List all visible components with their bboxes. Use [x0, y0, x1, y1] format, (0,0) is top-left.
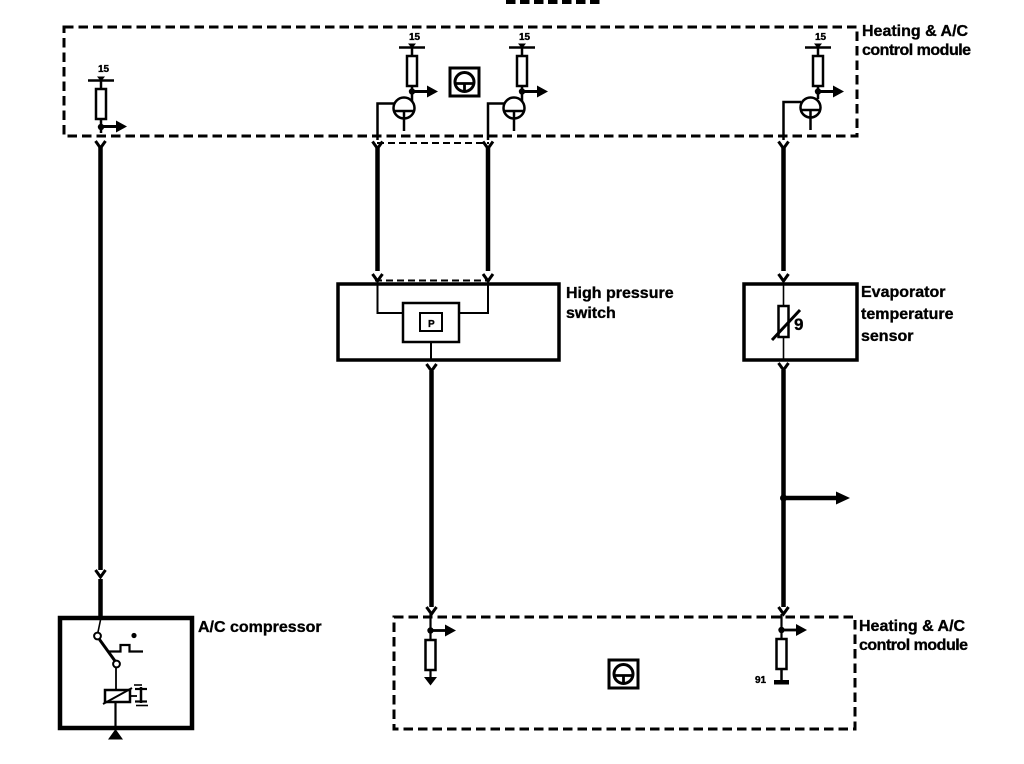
fuse F2 (terminal 15, mid-left): [399, 32, 425, 101]
connector V at bottom of wire C: [483, 274, 493, 281]
svg-text:Heating & A/C: Heating & A/C: [862, 23, 969, 40]
connector V below sensor box: [779, 363, 789, 370]
svg-text:15: 15: [98, 64, 110, 75]
label: A/C compressor: [198, 619, 322, 636]
svg-text:15: 15: [409, 32, 421, 43]
connector V at bottom of wire B: [373, 274, 383, 281]
junction node + arrow at F2 output: [409, 86, 438, 98]
fan icon (blower) in top module: [450, 68, 479, 96]
fuse F3 (terminal 15, mid-right): [509, 32, 535, 101]
input fuse/resistor (right) in bottom module: [777, 639, 787, 681]
solenoid K3 (circle with plunger): [504, 98, 525, 132]
svg-text:A/C compressor: A/C compressor: [198, 619, 322, 636]
svg-text:15: 15: [815, 32, 827, 43]
fan icon (blower) in bottom module: [609, 660, 638, 688]
switch contact lower: [113, 661, 120, 668]
junction node + arrow at F1 output: [98, 121, 127, 133]
wire from coil to ground: [114, 702, 116, 729]
wire B (thick) down to pressure switch: [375, 148, 380, 271]
dashed connector housing line between wires B and C (bottom): [375, 280, 490, 282]
theta symbol label: [794, 315, 803, 334]
connector V at bottom of wire E: [427, 607, 437, 614]
Heating & A/C control module (bottom) dashed box: [394, 617, 855, 729]
switch blade (diagonal): [100, 640, 116, 662]
wire from K2 to left then down: [378, 104, 395, 141]
svg-text:P: P: [428, 319, 435, 330]
ground symbol: [108, 729, 123, 740]
wire from K4 to left then down: [784, 102, 802, 140]
terminal triangle below left fuse: [424, 677, 437, 686]
label: Heating & A/C control module (top right): [862, 23, 971, 59]
svg-text:91: 91: [755, 675, 767, 686]
label: High pressure switch: [566, 285, 674, 322]
junction + arrow at module input (left): [427, 614, 456, 640]
svg-text:9: 9: [794, 315, 803, 334]
wire D (thick) down to evaporator sensor: [781, 148, 786, 271]
svg-text:switch: switch: [566, 305, 616, 322]
connector V at top of wire B: [373, 142, 383, 149]
wire A lower (into compressor): [98, 579, 103, 618]
svg-text:control module: control module: [859, 637, 968, 654]
Evaporator temperature sensor box: [744, 284, 857, 360]
internal wiring of pressure switch: [378, 285, 489, 313]
label: Heating & A/C control module (bottom right): [859, 618, 968, 654]
svg-text:temperature: temperature: [861, 306, 954, 323]
fuse F1 (terminal 15, left): [88, 64, 114, 133]
wire E (thick) from pressure switch down to module: [429, 371, 434, 607]
clutch coil (rect with diagonal): [103, 688, 132, 704]
wire from contact to clutch coil: [115, 667, 117, 690]
junction + arrow at module input (right): [778, 614, 807, 639]
terminal 91 label: [755, 675, 767, 686]
thermistor (NTC) inside sensor box: [772, 285, 800, 359]
connector V at bottom of wire D: [779, 274, 789, 281]
connector V at top of wire A (left): [96, 141, 106, 148]
truncated dashed line at top edge: [506, 0, 603, 4]
mechanical clutch symbol: [134, 685, 148, 706]
High pressure switch box: [338, 284, 559, 360]
junction + signal arrow on wire F: [780, 492, 850, 505]
input fuse/resistor (left) in bottom module: [426, 640, 436, 678]
Heating & A/C control module (top) dashed box: [64, 27, 857, 136]
connector V at top of wire D (right): [779, 142, 789, 149]
svg-text:15: 15: [519, 32, 531, 43]
A/C compressor box: [60, 618, 192, 728]
wire A upper (thick, to connector break): [98, 147, 103, 570]
wire from K3 to left then down: [488, 104, 504, 141]
wire F (thick) from sensor down to module: [781, 370, 786, 607]
junction node + arrow at F4 output: [815, 86, 844, 98]
svg-text:Evaporator: Evaporator: [861, 284, 945, 301]
link to mechanical clutch: [130, 695, 137, 697]
junction node + arrow at F3 output: [519, 86, 548, 98]
switch contact upper: [94, 620, 101, 639]
svg-text:control module: control module: [862, 42, 971, 59]
svg-text:sensor: sensor: [861, 328, 913, 345]
fuse F4 (terminal 15, right): [805, 32, 831, 99]
wire C (thick) down to pressure switch: [486, 148, 491, 271]
connector V at top of wire C: [483, 142, 493, 149]
label: Evaporator temperature sensor: [861, 284, 954, 345]
dashed connector housing line between wires B and C (top): [377, 142, 489, 144]
thermal actuator step line: [109, 645, 143, 652]
solenoid K4 (circle with plunger): [801, 98, 821, 131]
pressure switch element (box with P): [403, 303, 459, 360]
connector V at bottom of wire F: [779, 607, 789, 614]
in-line connector break on wire A: [96, 570, 106, 577]
fixed contact dot: [131, 633, 136, 638]
solenoid K2 (circle with plunger): [394, 98, 415, 132]
connector V below pressure switch: [427, 364, 437, 371]
svg-text:High pressure: High pressure: [566, 285, 674, 302]
svg-text:Heating & A/C: Heating & A/C: [859, 618, 966, 635]
terminal bar below right fuse: [774, 680, 789, 685]
